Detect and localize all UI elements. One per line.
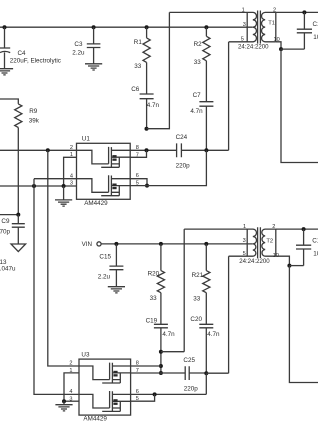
svg-text:220p: 220p: [176, 163, 191, 170]
svg-text:VIN: VIN: [82, 241, 92, 248]
node junction VIN / R21: [204, 242, 208, 246]
capacitor C25: [185, 366, 189, 380]
transistor MOSFET cell U1-A: [77, 147, 131, 167]
svg-text:U1: U1: [82, 136, 91, 143]
wire U3 pin 5 join: [131, 394, 155, 401]
wire drain node to T2 pin 1 riser: [161, 229, 184, 352]
wire U1 pin 6 join: [130, 179, 147, 186]
wire left stub to C9 node: [0, 214, 18, 216]
wire return to right edge (top): [281, 49, 318, 162]
svg-text:C6: C6: [131, 86, 140, 93]
wire VIN rail: [101, 243, 253, 245]
transformer T2 core: [258, 227, 261, 258]
transistor MOSFET cell U3-B: [79, 391, 131, 411]
node junction C19 / T2 pin1 branch: [159, 350, 163, 354]
svg-text:C3: C3: [74, 41, 83, 48]
node junction pin10 / cap return (bottom): [287, 264, 291, 268]
chassis ground under C9: [11, 244, 26, 252]
wire U1 pin 7 join: [130, 150, 146, 157]
svg-text:C20: C20: [190, 316, 202, 323]
wire U3 pin 6 to feedback node: [131, 373, 207, 394]
transformer T2 secondary winding: [262, 229, 276, 256]
svg-text:10: 10: [313, 251, 318, 258]
wire T1 pin 10: [276, 42, 281, 49]
wire down to ground symbol (U3): [63, 401, 65, 404]
capacitor C (top right, cut off): [297, 12, 312, 49]
svg-text:C7: C7: [193, 92, 202, 99]
wire U1 pin 8 to C24: [130, 149, 176, 151]
svg-text:2: 2: [273, 7, 276, 13]
resistor R21: [203, 244, 210, 293]
ground under C4: [0, 69, 13, 75]
node junction VIN / R20: [159, 242, 163, 246]
svg-text:.047u: .047u: [0, 266, 16, 273]
node junction pin4 riser / ground net: [32, 184, 36, 188]
svg-text:1: 1: [242, 7, 245, 13]
node junction R1C6 / T1 pin1 branch: [145, 127, 149, 131]
svg-text:70p: 70p: [0, 228, 11, 235]
wire drain node to T1 pin 1 riser: [147, 12, 170, 128]
capacitor C (bottom right, cut off): [296, 229, 311, 266]
svg-text:R9: R9: [29, 108, 38, 115]
wire R20 to C19: [160, 293, 162, 325]
transformer T1 secondary winding: [262, 12, 276, 41]
svg-text:3: 3: [243, 22, 246, 28]
svg-text:4: 4: [69, 389, 72, 395]
wire main supply rail (top): [0, 26, 253, 28]
svg-text:C25: C25: [183, 357, 195, 364]
svg-text:3: 3: [70, 181, 73, 187]
wire U3 pin 8: [131, 365, 161, 367]
capacitor C7: [199, 102, 213, 151]
transformer T2 primary winding: [184, 229, 256, 256]
svg-text:C1: C1: [312, 238, 318, 245]
node junction U3 pin1 / pin3 / ground: [62, 399, 66, 403]
svg-text:C1: C1: [313, 21, 319, 28]
node junction pin8 / R1C6 / pin7: [145, 148, 149, 152]
transformer T1 primary winding: [169, 12, 256, 41]
node junction pin10 / cap return (top): [279, 47, 283, 51]
svg-text:4: 4: [70, 173, 73, 179]
wire U1 pin 5 to feedback node: [130, 150, 206, 185]
svg-text:C9: C9: [1, 218, 10, 225]
svg-text:2: 2: [272, 224, 275, 230]
svg-text:33: 33: [150, 295, 158, 302]
node junction rail / C4: [3, 25, 7, 29]
wire T2 pin 2 to right edge: [276, 228, 318, 230]
svg-text:5: 5: [241, 37, 244, 43]
svg-text:2.2u: 2.2u: [72, 49, 85, 56]
svg-text:33: 33: [193, 295, 201, 302]
svg-text:33: 33: [134, 63, 142, 70]
svg-text:4.7n: 4.7n: [207, 331, 220, 338]
resistor R9: [15, 104, 22, 128]
node junction VIN / C15: [114, 242, 118, 246]
wire cross link U1 pin4 to U3 pin4: [34, 179, 79, 395]
wire U3 pin 7 to C25: [131, 372, 186, 374]
node junction output cap (bottom): [302, 227, 306, 231]
svg-text:C15: C15: [99, 254, 111, 261]
capacitor C19: [154, 324, 168, 373]
resistor R20: [157, 244, 164, 293]
svg-text:4.7n: 4.7n: [147, 102, 160, 109]
node junction U3 pin8: [159, 364, 163, 368]
wire U1 pin 4: [34, 178, 77, 180]
wire U1 pin 1 to ground node: [64, 157, 77, 186]
svg-text:R20: R20: [148, 270, 160, 277]
wire node to T2 pin 5 riser: [206, 256, 228, 373]
svg-text:39k: 39k: [29, 117, 40, 124]
transistor MOSFET cell U3-A: [79, 363, 131, 383]
wire R2 to C7: [205, 61, 207, 102]
wire U3 pin 1 to ground node: [64, 373, 79, 401]
svg-text:3: 3: [243, 238, 246, 244]
capacitor C4 (electrolytic): [0, 27, 10, 68]
terminal VIN: [97, 242, 101, 246]
resistor R2: [203, 27, 210, 61]
wire T1 pin 2 to right edge: [276, 11, 318, 13]
svg-text:2.2u: 2.2u: [98, 273, 111, 280]
node junction pin1 / pin3 / ground: [62, 184, 66, 188]
svg-text:T1: T1: [268, 21, 275, 27]
node junction U3 pin7 / C25 wire: [159, 371, 163, 375]
capacitor C3: [87, 27, 101, 64]
node junction C24 / R2C7 / drain2: [204, 148, 208, 152]
resistor R1: [143, 27, 150, 62]
wire R9 to C9: [17, 128, 19, 215]
node junction rail / C3: [92, 25, 96, 29]
wire R9 top stub: [0, 99, 18, 104]
svg-text:C19: C19: [146, 318, 158, 325]
svg-text:5: 5: [243, 251, 246, 257]
wire return to right edge (bottom): [289, 266, 318, 383]
capacitor C15: [109, 244, 123, 287]
ground under U3: [55, 405, 72, 411]
wire C25 to node: [189, 372, 206, 374]
wire T2 pin 10: [276, 256, 290, 265]
capacitor C6: [140, 94, 154, 129]
ground under U1: [55, 200, 72, 206]
svg-text:AM4429: AM4429: [83, 416, 107, 423]
wire cap return (bottom): [289, 265, 303, 267]
node junction U3 pin6 / pin5: [153, 392, 157, 396]
wire R1 to C6: [146, 62, 148, 94]
wire cap return (top): [281, 48, 304, 50]
wire to U1 pin 2: [0, 149, 77, 151]
wire R21 to C20: [205, 293, 207, 325]
transformer T1 core: [258, 11, 261, 44]
node junction rail / R2: [204, 25, 208, 29]
svg-text:220uF, Electrolytic: 220uF, Electrolytic: [10, 58, 61, 65]
node junction R9 / C9: [16, 213, 20, 217]
op-amp U1 dual MOSFET AM4429 package: [77, 143, 131, 199]
svg-text:U3: U3: [81, 351, 90, 358]
node junction rail / R1: [145, 25, 149, 29]
svg-text:T2: T2: [266, 238, 273, 244]
ground under C15: [108, 287, 125, 293]
svg-text:24:24:2200: 24:24:2200: [239, 258, 270, 265]
node junction U1 pin2 / cross link: [46, 148, 50, 152]
svg-text:R21: R21: [192, 272, 204, 279]
svg-text:C4: C4: [18, 50, 27, 57]
wire U3 pin 3: [64, 400, 79, 402]
transistor MOSFET cell U1-B: [77, 175, 131, 195]
svg-text:2: 2: [70, 145, 73, 151]
capacitor C9: [12, 215, 25, 244]
capacitor C20: [199, 324, 213, 373]
node junction pin6 / pin5: [145, 184, 149, 188]
svg-text:220p: 220p: [184, 385, 199, 392]
svg-text:C24: C24: [176, 134, 188, 141]
wire C24 to T1 pin 5 riser: [181, 42, 228, 151]
wire down to ground symbol: [63, 186, 65, 200]
node junction C25 / C20 / drain / T2 pin5: [204, 371, 208, 375]
capacitor C24: [177, 143, 182, 157]
ground under C3: [85, 64, 102, 70]
svg-text:R1: R1: [134, 39, 143, 46]
svg-text:1: 1: [243, 224, 246, 230]
svg-text:2: 2: [69, 361, 72, 367]
svg-text:4.7n: 4.7n: [162, 331, 175, 338]
svg-text:24:24:2200: 24:24:2200: [238, 44, 269, 51]
svg-text:1: 1: [70, 152, 73, 158]
svg-text:33: 33: [194, 59, 202, 66]
op-amp U3 dual MOSFET AM4429 package: [79, 359, 131, 415]
svg-text:4.7n: 4.7n: [190, 108, 203, 115]
svg-text:AM4429: AM4429: [84, 200, 108, 207]
wire ground net to U1 pin 3: [0, 185, 77, 187]
wire cross link U1 pin2 to U3 pin2: [48, 150, 79, 366]
svg-text:R2: R2: [194, 41, 203, 48]
svg-text:10: 10: [313, 34, 318, 41]
node junction output cap (top): [302, 10, 306, 14]
